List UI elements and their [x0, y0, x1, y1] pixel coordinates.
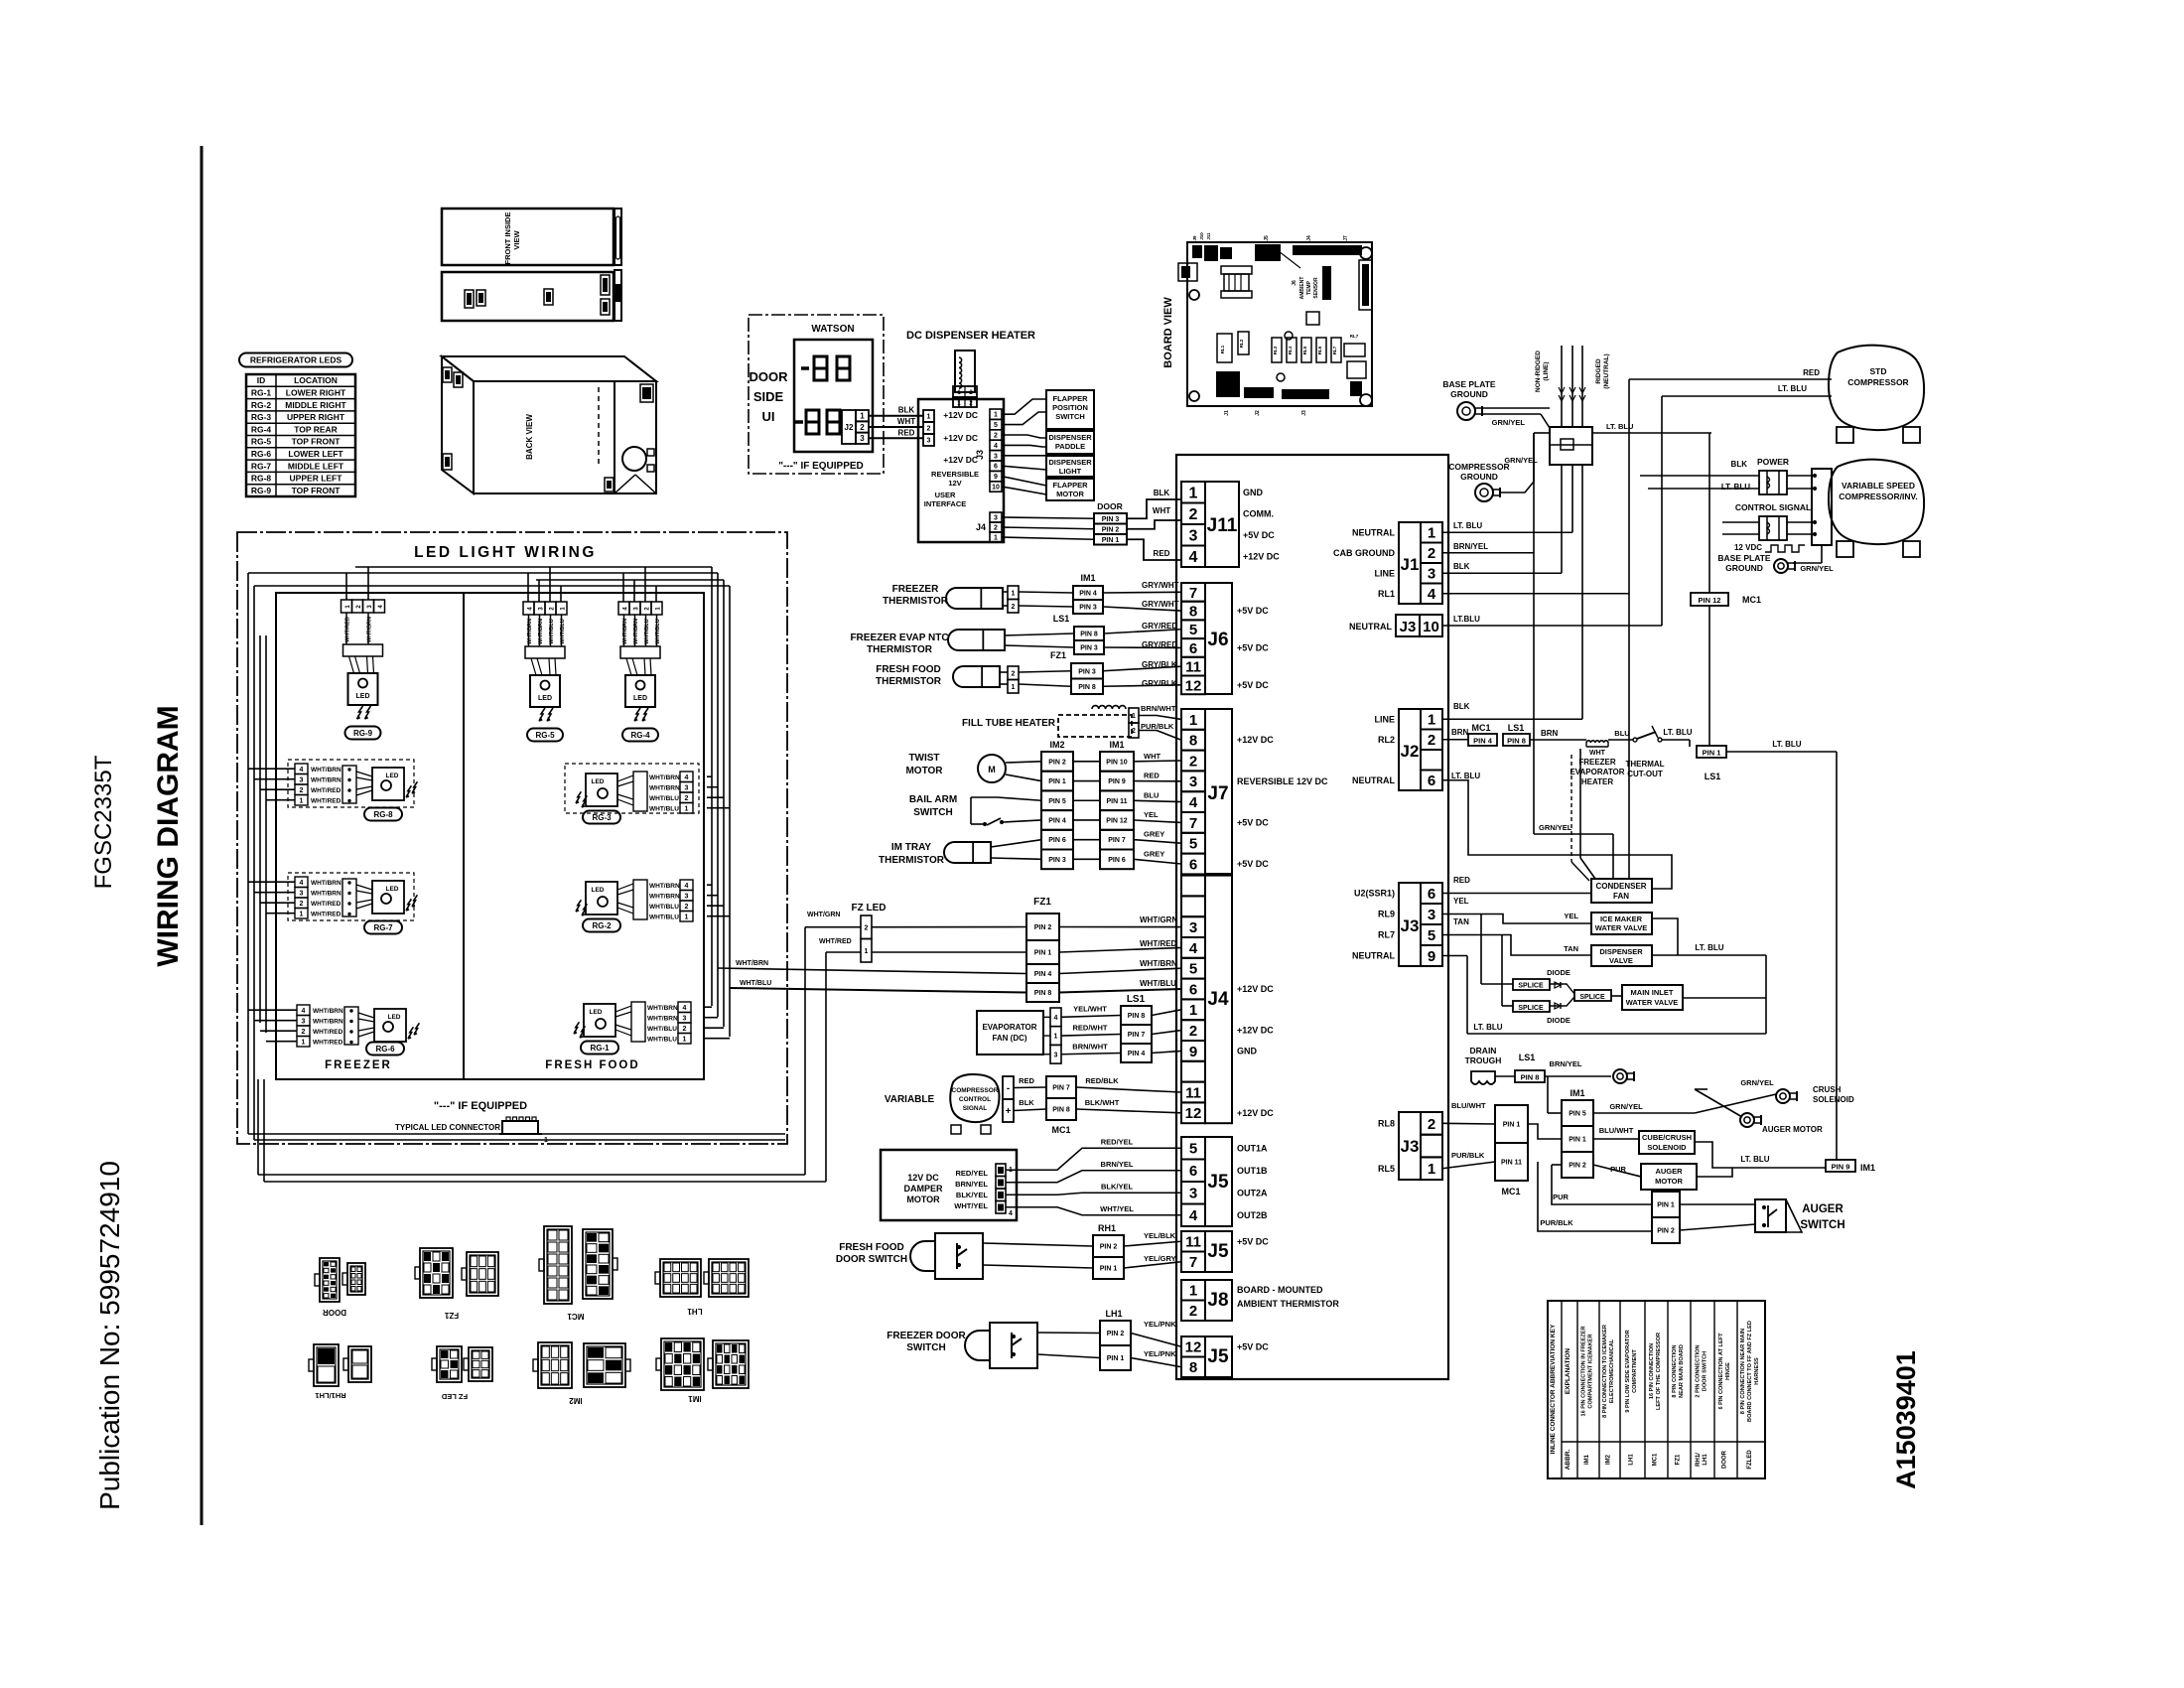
svg-text:WHT/YEL: WHT/YEL — [1100, 1204, 1134, 1213]
variable speed compressor — [1829, 460, 1924, 544]
led module RG-2 — [586, 882, 617, 914]
svg-text:4: 4 — [1189, 794, 1198, 811]
svg-text:RL7: RL7 — [1350, 334, 1359, 339]
svg-text:RG-6: RG-6 — [251, 449, 272, 459]
svg-text:+5V DC: +5V DC — [1237, 1341, 1269, 1351]
svg-text:RG-9: RG-9 — [353, 729, 373, 738]
svg-text:2 PIN CONNECTION: 2 PIN CONNECTION — [1696, 1344, 1702, 1397]
svg-text:DISPENSER: DISPENSER — [1048, 458, 1092, 467]
svg-text:2: 2 — [1012, 670, 1016, 677]
svg-text:SWITCH: SWITCH — [1800, 1219, 1844, 1231]
svg-text:DAMPER: DAMPER — [903, 1184, 943, 1194]
connector J2 — [1421, 709, 1442, 730]
svg-text:BLK: BLK — [898, 406, 915, 415]
svg-text:FREEZER: FREEZER — [892, 584, 939, 595]
svg-text:PIN 3: PIN 3 — [1048, 857, 1066, 864]
svg-text:J11: J11 — [1207, 515, 1238, 536]
svg-text:9 PIN LOW SIDE EVAPORATOR: 9 PIN LOW SIDE EVAPORATOR — [1625, 1330, 1631, 1412]
svg-text:OUT2A: OUT2A — [1237, 1188, 1268, 1197]
svg-text:LT. BLU: LT. BLU — [1663, 728, 1692, 737]
pin header RG-3 — [680, 772, 693, 782]
svg-text:5: 5 — [1428, 927, 1435, 944]
svg-text:RL2: RL2 — [1239, 339, 1244, 348]
svg-text:VARIABLE: VARIABLE — [885, 1094, 935, 1105]
svg-text:RL8: RL8 — [1378, 1118, 1395, 1128]
svg-text:PIN 4: PIN 4 — [1034, 971, 1052, 978]
led wiring stubs RG-6 — [248, 1009, 297, 1011]
wires IM2 to IM1 — [1073, 761, 1100, 763]
svg-text:RL2: RL2 — [1378, 735, 1395, 745]
svg-text:BOARD VIEW: BOARD VIEW — [1162, 297, 1174, 368]
svg-text:3: 3 — [683, 1016, 687, 1023]
svg-text:LS1: LS1 — [1519, 1053, 1536, 1062]
svg-text:FREEZER: FREEZER — [325, 1059, 392, 1071]
wire wht/red — [826, 951, 861, 953]
svg-text:2: 2 — [300, 901, 304, 908]
svg-text:RL7: RL7 — [1332, 346, 1337, 354]
svg-text:M: M — [988, 765, 996, 774]
svg-text:1: 1 — [300, 798, 304, 805]
svg-text:RG-7: RG-7 — [251, 461, 272, 471]
svg-text:LT. BLU: LT. BLU — [1473, 1023, 1502, 1032]
svg-text:7: 7 — [1189, 585, 1197, 602]
flapper position switch — [1046, 390, 1094, 429]
svg-text:8: 8 — [1189, 733, 1197, 750]
connector J7 — [1181, 709, 1205, 730]
svg-text:WATER VALVE: WATER VALVE — [1595, 923, 1648, 932]
board view relay bank — [1272, 338, 1282, 362]
svg-text:5: 5 — [1189, 836, 1197, 853]
wires damper motor to J5 — [1006, 1148, 1181, 1170]
svg-text:12: 12 — [1185, 1339, 1202, 1356]
svg-text:SIDE: SIDE — [753, 389, 784, 404]
fresh food thermistor plug — [1008, 666, 1019, 680]
svg-text:6: 6 — [1189, 1163, 1197, 1180]
dc dispenser heater element — [955, 351, 975, 392]
svg-text:YEL/BLK: YEL/BLK — [1144, 1231, 1176, 1240]
svg-text:7: 7 — [1189, 815, 1197, 832]
wires IM1 to J7 — [1134, 760, 1181, 763]
svg-text:FREEZER EVAP NTC: FREEZER EVAP NTC — [850, 633, 948, 643]
board view left edge connector — [1178, 263, 1197, 281]
inverter board — [1812, 469, 1832, 545]
connector face MC1 — [544, 1226, 572, 1304]
svg-text:BAIL ARM: BAIL ARM — [909, 794, 957, 805]
svg-text:4: 4 — [685, 883, 689, 890]
svg-text:FAN (DC): FAN (DC) — [992, 1034, 1026, 1043]
svg-text:J6: J6 — [1207, 630, 1228, 650]
svg-text:RED/BLK: RED/BLK — [1085, 1076, 1119, 1085]
svg-text:LED: LED — [356, 693, 370, 700]
wires fz led to FZ1 — [872, 926, 1026, 928]
svg-text:NEAR MAIN BOARD: NEAR MAIN BOARD — [1679, 1344, 1685, 1398]
refrigerator leds title stadium — [239, 353, 352, 367]
svg-text:1: 1 — [994, 412, 998, 419]
wires RG-9 — [345, 613, 347, 644]
svg-text:2: 2 — [1189, 1303, 1197, 1320]
svg-text:GRN/YEL: GRN/YEL — [1504, 456, 1538, 465]
svg-text:FAN: FAN — [1613, 892, 1629, 901]
supply wires with strain arrows — [1561, 346, 1563, 427]
svg-text:UPPER LEFT: UPPER LEFT — [290, 474, 343, 484]
auger switch — [1755, 1199, 1786, 1232]
svg-text:WHT/BRN: WHT/BRN — [649, 894, 680, 901]
led plug RG-7 — [342, 879, 356, 916]
svg-text:MOTOR: MOTOR — [1056, 490, 1084, 498]
svg-text:PIN 2: PIN 2 — [1048, 759, 1066, 766]
svg-text:BLU/WHT: BLU/WHT — [1451, 1101, 1486, 1110]
svg-text:PIN 4: PIN 4 — [1079, 591, 1097, 598]
svg-text:RL1: RL1 — [1220, 345, 1225, 353]
svg-text:IM1: IM1 — [1584, 1454, 1590, 1465]
svg-text:J5: J5 — [1207, 1346, 1229, 1367]
svg-text:WHT/BRN: WHT/BRN — [649, 774, 680, 781]
svg-text:4: 4 — [302, 1008, 306, 1015]
led light wiring inner box — [276, 593, 704, 1079]
svg-text:GND: GND — [1243, 488, 1264, 497]
svg-text:9: 9 — [1428, 948, 1435, 965]
svg-text:LT. BLU: LT. BLU — [1772, 740, 1801, 749]
svg-text:VIEW: VIEW — [512, 229, 521, 249]
svg-text:PIN 7: PIN 7 — [1108, 837, 1126, 844]
led wiring stubs RG-3 — [707, 775, 712, 777]
svg-text:LED: LED — [590, 1009, 603, 1016]
std compressor — [1829, 346, 1924, 430]
svg-text:11: 11 — [1185, 1084, 1201, 1101]
svg-text:3: 3 — [1054, 1052, 1058, 1058]
board view bottom connector J2 — [1244, 387, 1274, 398]
svg-text:PIN 11: PIN 11 — [1501, 1160, 1522, 1167]
board view transformer — [1221, 266, 1252, 274]
svg-text:RL9: RL9 — [1378, 910, 1395, 919]
svg-text:BRN/YEL: BRN/YEL — [1550, 1059, 1582, 1068]
svg-text:BLK: BLK — [1453, 562, 1470, 571]
svg-text:3: 3 — [1189, 919, 1197, 936]
svg-text:RG-6: RG-6 — [375, 1045, 395, 1054]
board view relay RL2 — [1238, 332, 1249, 354]
ring terminal auger motor — [1740, 1113, 1754, 1127]
svg-text:2: 2 — [1012, 604, 1016, 611]
led light wiring outer box (dashed) — [237, 532, 787, 1144]
svg-text:WHT/BLU: WHT/BLU — [649, 795, 679, 802]
svg-text:PIN 6: PIN 6 — [1108, 857, 1126, 864]
front view door strip — [614, 209, 621, 265]
svg-text:J9: J9 — [1192, 235, 1197, 241]
connector MC1 variable — [1046, 1076, 1076, 1098]
svg-text:NEUTRAL: NEUTRAL — [1352, 951, 1395, 961]
wire WHT/BRN to FZ1 — [718, 968, 1026, 974]
svg-text:COMPRESSOR: COMPRESSOR — [952, 1087, 999, 1094]
svg-text:RED: RED — [898, 428, 915, 437]
svg-text:4: 4 — [1428, 586, 1436, 603]
svg-text:1: 1 — [1428, 712, 1435, 729]
wires freezer door switch to LH1 — [1037, 1332, 1100, 1335]
svg-text:GRN/YEL: GRN/YEL — [1740, 1078, 1774, 1087]
svg-text:RG-4: RG-4 — [630, 731, 650, 740]
board view top right connector J4 — [1293, 245, 1362, 255]
ui input pins — [923, 410, 934, 422]
svg-text:WHT/BLU: WHT/BLU — [549, 619, 555, 643]
svg-text:PIN 8: PIN 8 — [1078, 684, 1096, 691]
led module RG-7 — [356, 885, 372, 890]
svg-text:LOWER LEFT: LOWER LEFT — [288, 449, 343, 459]
led wiring stubs RG-2 — [707, 884, 712, 886]
svg-text:TOP FRONT: TOP FRONT — [292, 486, 341, 495]
svg-text:J11: J11 — [1206, 232, 1211, 240]
svg-text:TOP REAR: TOP REAR — [294, 424, 338, 434]
svg-text:WHT/BLU: WHT/BLU — [647, 1026, 677, 1033]
svg-text:RED/WHT: RED/WHT — [1073, 1024, 1108, 1033]
back view tiny connector RH1 — [443, 454, 452, 470]
assembly outline RG-7 — [288, 873, 414, 920]
svg-text:GRY/BLK: GRY/BLK — [1142, 679, 1177, 688]
wires J3 UI to dispenser parts — [1002, 399, 1046, 414]
svg-text:SPLICE: SPLICE — [1518, 983, 1544, 990]
label RG-3 — [583, 811, 620, 824]
svg-text:PIN 1: PIN 1 — [1034, 950, 1052, 957]
svg-text:SENSOR: SENSOR — [1313, 277, 1319, 299]
svg-text:PIN 2: PIN 2 — [1102, 526, 1120, 533]
svg-text:PIN 4: PIN 4 — [1128, 1051, 1146, 1057]
svg-text:PIN 11: PIN 11 — [1106, 798, 1127, 805]
board view screws — [1189, 290, 1199, 300]
svg-text:POSITION: POSITION — [1052, 403, 1088, 412]
auger motor box — [1641, 1164, 1697, 1190]
svg-text:BLK/YEL: BLK/YEL — [956, 1191, 989, 1199]
svg-text:PIN 3: PIN 3 — [1079, 605, 1097, 612]
svg-text:1: 1 — [1054, 1034, 1058, 1041]
svg-text:PIN 5: PIN 5 — [1569, 1111, 1586, 1118]
svg-text:3: 3 — [1428, 566, 1435, 583]
svg-text:LH1: LH1 — [1703, 1454, 1708, 1466]
svg-text:RED/YEL: RED/YEL — [1101, 1137, 1134, 1146]
svg-text:LED: LED — [386, 886, 399, 893]
svg-text:J5: J5 — [1264, 235, 1270, 241]
svg-text:UI: UI — [762, 409, 775, 424]
svg-text:J10: J10 — [1199, 232, 1204, 240]
svg-text:RED: RED — [1154, 549, 1170, 558]
svg-text:RG-5: RG-5 — [535, 731, 555, 740]
watson display box — [794, 340, 873, 452]
svg-text:J5: J5 — [1207, 1241, 1229, 1262]
svg-text:LED: LED — [633, 695, 647, 702]
svg-text:IM1: IM1 — [1860, 1163, 1875, 1173]
svg-text:VARIABLE SPEED: VARIABLE SPEED — [1842, 481, 1915, 491]
svg-text:BASE PLATE: BASE PLATE — [1717, 553, 1771, 563]
svg-text:ICE MAKER: ICE MAKER — [1600, 914, 1643, 923]
svg-text:WHT/BRN: WHT/BRN — [736, 960, 768, 967]
svg-text:4: 4 — [1189, 940, 1198, 957]
svg-text:IM1: IM1 — [1109, 740, 1124, 750]
svg-text:MOTOR: MOTOR — [905, 766, 943, 776]
svg-text:2: 2 — [994, 433, 998, 440]
svg-text:HINGE: HINGE — [1725, 1362, 1731, 1380]
svg-text:PUR/BLK: PUR/BLK — [1540, 1218, 1573, 1227]
svg-text:BRN/YEL: BRN/YEL — [1453, 542, 1488, 551]
wires freezer thermistor — [1003, 591, 1008, 593]
svg-text:12: 12 — [1185, 677, 1202, 694]
label RG-8 — [364, 808, 402, 821]
svg-text:LT. BLU: LT. BLU — [1778, 384, 1807, 393]
svg-text:PUR: PUR — [1553, 1193, 1569, 1201]
led wiring bottom return — [248, 1133, 785, 1135]
svg-text:PIN 1: PIN 1 — [1107, 1355, 1125, 1362]
wires fresh food thermistor — [1000, 671, 1008, 673]
svg-text:HEATER: HEATER — [1581, 777, 1614, 786]
svg-text:GRN/YEL: GRN/YEL — [1539, 823, 1572, 832]
svg-text:PIN 2: PIN 2 — [1107, 1331, 1125, 1337]
splice 2 — [1513, 1001, 1550, 1012]
svg-text:4: 4 — [685, 774, 689, 781]
led module RG-4 — [626, 658, 631, 675]
svg-text:FREEZER DOOR: FREEZER DOOR — [887, 1331, 966, 1341]
svg-text:TAN: TAN — [1453, 917, 1469, 926]
svg-text:16 PIN CONNECTION: 16 PIN CONNECTION — [1649, 1343, 1655, 1399]
svg-text:2: 2 — [683, 1026, 687, 1033]
svg-text:MC1: MC1 — [1051, 1125, 1070, 1135]
svg-text:AMBIENT THERMISTOR: AMBIENT THERMISTOR — [1237, 1299, 1339, 1309]
wires RG-4 — [623, 615, 625, 646]
svg-text:RG-8: RG-8 — [251, 474, 272, 484]
svg-text:RL6: RL6 — [1317, 346, 1322, 354]
svg-text:WATER VALVE: WATER VALVE — [1626, 998, 1679, 1007]
wires door switch to RH1 — [983, 1243, 1093, 1246]
svg-text:3: 3 — [1189, 528, 1198, 545]
svg-text:GRN/YEL: GRN/YEL — [1492, 418, 1526, 427]
svg-text:USER: USER — [935, 491, 956, 499]
svg-text:BLK/WHT: BLK/WHT — [1085, 1098, 1120, 1107]
svg-text:1: 1 — [683, 1037, 687, 1044]
svg-text:GRN/YEL: GRN/YEL — [1609, 1102, 1643, 1111]
svg-text:J4: J4 — [976, 522, 986, 532]
svg-text:BASE PLATE: BASE PLATE — [1442, 379, 1496, 389]
svg-text:BRN/YEL: BRN/YEL — [955, 1180, 988, 1189]
svg-text:1: 1 — [302, 1040, 306, 1047]
watson 7-segment digits row1 — [801, 366, 809, 370]
svg-text:Publication No: 5995724910: Publication No: 5995724910 — [94, 1161, 125, 1510]
svg-text:GRY/WHT: GRY/WHT — [1142, 581, 1179, 590]
user interface box — [918, 399, 1004, 542]
led wiring header drops RG-9 — [345, 573, 347, 600]
svg-text:WHT: WHT — [897, 417, 915, 426]
svg-text:+12V DC: +12V DC — [1237, 735, 1274, 745]
led wiring lower loop to FZ LED — [263, 1079, 265, 1182]
svg-text:NEUTRAL: NEUTRAL — [1349, 622, 1392, 632]
svg-text:WHT: WHT — [1589, 750, 1606, 757]
svg-text:WHT/BRN: WHT/BRN — [649, 883, 680, 890]
svg-text:FZ1: FZ1 — [1050, 650, 1066, 660]
svg-text:WHT/BRN: WHT/BRN — [311, 880, 341, 887]
svg-text:PIN 2: PIN 2 — [1034, 924, 1052, 931]
svg-text:PIN 2: PIN 2 — [1100, 1244, 1118, 1251]
wire drain junction to IM1 pin5 — [1547, 1076, 1549, 1113]
svg-text:RG-9: RG-9 — [251, 486, 272, 495]
led wiring stubs RG-8 — [248, 768, 295, 770]
svg-text:IM1: IM1 — [688, 1394, 702, 1403]
assembly outline RG-3 — [565, 764, 699, 813]
svg-text:WHT/RED: WHT/RED — [311, 901, 341, 908]
svg-text:2: 2 — [1428, 1116, 1435, 1133]
svg-text:2: 2 — [1189, 753, 1197, 770]
svg-text:WHT/BLU: WHT/BLU — [655, 619, 661, 643]
svg-text:J5: J5 — [1207, 1172, 1229, 1193]
svg-text:12V DC: 12V DC — [907, 1173, 939, 1183]
svg-text:6: 6 — [1189, 856, 1197, 873]
svg-text:J3: J3 — [1400, 619, 1417, 635]
svg-text:WHT/BRN: WHT/BRN — [311, 891, 341, 898]
svg-text:DOOR SWITCH: DOOR SWITCH — [836, 1254, 907, 1265]
heater connector 1 2 — [953, 386, 977, 397]
svg-text:+5V DC: +5V DC — [1237, 817, 1269, 827]
svg-text:OUT2B: OUT2B — [1237, 1210, 1268, 1220]
svg-text:1: 1 — [1189, 486, 1198, 502]
svg-text:1: 1 — [865, 948, 869, 955]
svg-text:WHT/RED: WHT/RED — [311, 787, 341, 794]
wire compressor ground — [1500, 433, 1534, 492]
connector J4 — [1181, 876, 1205, 897]
led wiring stubs RG-1 — [705, 1006, 712, 1008]
svg-text:WHT/BLU: WHT/BLU — [1140, 979, 1176, 988]
svg-text:8: 8 — [1189, 603, 1197, 620]
svg-text:PUR/BLK: PUR/BLK — [1451, 1151, 1485, 1160]
svg-text:TAN: TAN — [1564, 944, 1578, 953]
svg-text:3: 3 — [300, 777, 304, 784]
diode 2 — [1555, 1003, 1561, 1009]
svg-text:PIN 8: PIN 8 — [1080, 632, 1098, 638]
svg-text:3: 3 — [685, 894, 689, 901]
svg-text:6: 6 — [994, 464, 998, 471]
board view bottom connector J3 — [1282, 389, 1329, 399]
connector J1 — [1421, 522, 1442, 543]
svg-text:FGSC2335T: FGSC2335T — [90, 755, 117, 889]
svg-text:2: 2 — [1428, 732, 1435, 749]
svg-text:RG-5: RG-5 — [251, 437, 272, 447]
connector face RH1/LH1 — [314, 1344, 339, 1386]
led wiring left bus — [247, 573, 249, 1134]
front view tiny connector FZ LED — [601, 275, 610, 295]
led wiring header drops RG-4 — [622, 573, 624, 602]
connector J2 on watson — [842, 410, 856, 444]
svg-text:LED: LED — [386, 773, 399, 779]
svg-text:4: 4 — [994, 443, 998, 450]
ring terminal drain — [1613, 1069, 1627, 1083]
svg-text:+12V DC: +12V DC — [1243, 551, 1280, 561]
diode 1 — [1555, 982, 1561, 988]
label RG-9 — [345, 727, 381, 740]
svg-text:PIN 1: PIN 1 — [1102, 537, 1120, 544]
front view tiny connector FZ1 — [601, 299, 610, 315]
svg-text:WHT/GRN: WHT/GRN — [807, 912, 840, 918]
wires control signal — [1722, 521, 1759, 523]
pin header RG-8 — [295, 764, 308, 774]
svg-text:DC DISPENSER HEATER: DC DISPENSER HEATER — [906, 330, 1035, 342]
12v dc damper motor — [881, 1150, 1017, 1220]
svg-text:DOOR: DOOR — [750, 369, 789, 384]
led plug RG-4 — [620, 646, 660, 658]
svg-text:YEL: YEL — [1564, 912, 1578, 920]
svg-text:PIN 1: PIN 1 — [1048, 778, 1066, 785]
pin 12 mc1 inline — [1691, 593, 1728, 606]
evaporator fan dc — [977, 1011, 1043, 1055]
board view connector J9 J10 J11 cluster — [1192, 245, 1202, 258]
svg-text:2: 2 — [1428, 545, 1435, 562]
connector J8 — [1181, 1280, 1205, 1301]
pin header RG-6 — [297, 1005, 310, 1016]
svg-text:IM2: IM2 — [1049, 740, 1064, 750]
svg-text:8 PIN CONNECTION NEAR MAIN: 8 PIN CONNECTION NEAR MAIN — [1740, 1329, 1746, 1414]
svg-text:LH1: LH1 — [1105, 1309, 1122, 1319]
svg-text:UPPER RIGHT: UPPER RIGHT — [287, 412, 345, 422]
